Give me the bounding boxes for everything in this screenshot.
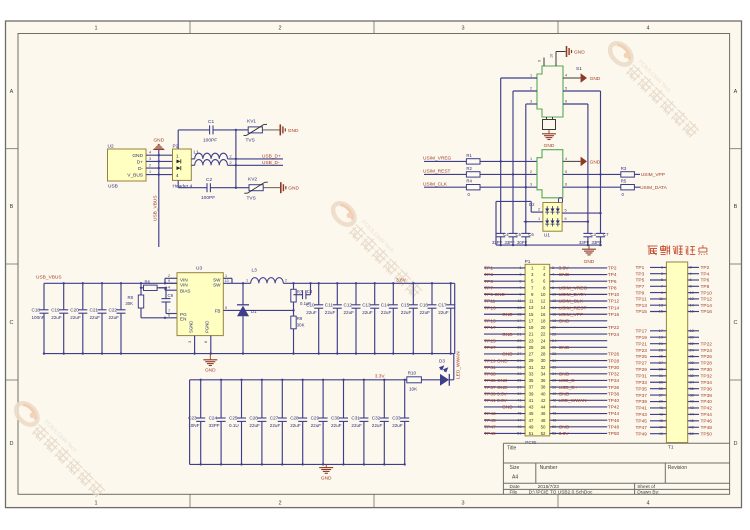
T1 pin row 25/26 bbox=[636, 354, 713, 361]
svg-text:3.8V: 3.8V bbox=[396, 277, 407, 283]
svg-text:20: 20 bbox=[541, 325, 546, 330]
svg-text:C10: C10 bbox=[306, 302, 315, 307]
svg-text:TP35 GND: TP35 GND bbox=[484, 378, 508, 384]
U3 bottom stubs bbox=[188, 336, 212, 355]
svg-text:47: 47 bbox=[529, 418, 534, 423]
svg-text:27: 27 bbox=[529, 352, 534, 357]
svg-text:A: A bbox=[10, 89, 14, 95]
resistor R3 bbox=[621, 166, 640, 177]
svg-text:A: A bbox=[734, 89, 738, 95]
P1 pin row 17/18 bbox=[484, 318, 607, 325]
P1 pin row 33/34 bbox=[484, 371, 619, 378]
svg-text:42: 42 bbox=[552, 398, 556, 403]
junctions C26 bbox=[261, 379, 263, 466]
svg-text:USB_D+: USB_D+ bbox=[262, 154, 281, 160]
svg-text:32: 32 bbox=[552, 364, 556, 369]
svg-text:10: 10 bbox=[541, 292, 546, 297]
svg-text:33: 33 bbox=[517, 371, 521, 376]
header P2 bbox=[173, 144, 193, 190]
svg-text:GND: GND bbox=[559, 319, 570, 325]
svg-text:GND: GND bbox=[321, 475, 332, 481]
svg-text:TP29 GND: TP29 GND bbox=[484, 358, 508, 364]
svg-text:C16: C16 bbox=[420, 302, 429, 307]
svg-text:TP15: TP15 bbox=[484, 319, 496, 325]
svg-text:36: 36 bbox=[552, 378, 556, 383]
capacitor C8 bbox=[294, 282, 313, 306]
svg-text:TP50: TP50 bbox=[701, 431, 713, 437]
svg-text:TP11: TP11 bbox=[484, 299, 495, 305]
svg-text:D:\ \PCIE TO USB2.0.: D:\ \PCIE TO USB2.0.SchDoc bbox=[529, 490, 593, 496]
svg-text:LED_WWAN: LED_WWAN bbox=[559, 398, 588, 404]
junctions C33 bbox=[404, 379, 406, 466]
wire X1 pin6 row bbox=[563, 186, 621, 188]
svg-text:TP25: TP25 bbox=[484, 338, 496, 344]
P1 pin row 49/50 bbox=[484, 424, 619, 431]
svg-text:12: 12 bbox=[690, 296, 694, 301]
svg-text:22uF: 22uF bbox=[438, 310, 449, 315]
svg-text:3: 3 bbox=[188, 341, 192, 343]
svg-text:TP46: TP46 bbox=[608, 418, 620, 424]
svg-text:30K: 30K bbox=[125, 301, 133, 306]
svg-text:USB_VBUS: USB_VBUS bbox=[153, 195, 159, 221]
wire 3.3V rail bbox=[190, 379, 407, 381]
svg-text:USIM_DATA: USIM_DATA bbox=[640, 185, 668, 191]
T1 pin row 17/18 bbox=[636, 328, 700, 335]
svg-text:3: 3 bbox=[530, 183, 532, 187]
capacitor C33 bbox=[392, 380, 409, 465]
svg-text:6: 6 bbox=[552, 278, 554, 283]
svg-text:TVS: TVS bbox=[246, 138, 255, 144]
svg-text:6: 6 bbox=[565, 217, 567, 221]
svg-text:TP12: TP12 bbox=[608, 299, 620, 305]
capacitor C14 bbox=[381, 283, 398, 353]
capacitor C26 bbox=[249, 380, 266, 465]
svg-text:6: 6 bbox=[168, 313, 170, 317]
ground symbol above U2 bbox=[153, 138, 165, 151]
junctions C23 bbox=[200, 379, 202, 466]
svg-text:29: 29 bbox=[517, 358, 521, 363]
wire U1 top link bbox=[496, 201, 531, 245]
svg-text:49: 49 bbox=[659, 431, 663, 436]
svg-text:TP36: TP36 bbox=[701, 386, 713, 392]
P1 pin row 35/36 bbox=[484, 378, 619, 385]
wire X1 pin4 bbox=[563, 160, 581, 162]
svg-text:TP13: TP13 bbox=[636, 303, 648, 309]
svg-text:22uF: 22uF bbox=[311, 423, 322, 428]
wire S1 pin3 bbox=[526, 100, 537, 105]
svg-text:USB_D+: USB_D+ bbox=[559, 385, 578, 391]
svg-text:TP39 3.3V: TP39 3.3V bbox=[484, 391, 507, 397]
junction rail C21 bbox=[101, 282, 103, 284]
junction gnd C19 bbox=[63, 352, 65, 354]
svg-text:TP25: TP25 bbox=[636, 354, 648, 360]
svg-text:48: 48 bbox=[541, 418, 546, 423]
svg-text:9: 9 bbox=[519, 292, 521, 297]
svg-text:22uF: 22uF bbox=[51, 315, 62, 320]
svg-text:C1: C1 bbox=[208, 119, 214, 125]
ground X1 pin4 bbox=[581, 157, 601, 167]
junction rail C22 bbox=[120, 282, 122, 284]
values C4 C5 C6 bbox=[492, 240, 528, 245]
svg-text:D1: D1 bbox=[251, 309, 257, 314]
svg-text:4: 4 bbox=[646, 501, 649, 507]
svg-text:30PF: 30PF bbox=[517, 240, 528, 245]
common-mode choke L1 bbox=[191, 150, 231, 166]
svg-text:TP46: TP46 bbox=[701, 419, 713, 425]
title block frame bbox=[503, 443, 729, 494]
svg-text:TP24: TP24 bbox=[701, 348, 713, 354]
capacitor C27 bbox=[270, 380, 287, 465]
svg-text:33PF: 33PF bbox=[492, 240, 503, 245]
svg-text:TP37 GND: TP37 GND bbox=[484, 385, 508, 391]
svg-text:23: 23 bbox=[517, 338, 521, 343]
junction rail C20 bbox=[82, 282, 84, 284]
svg-text:46: 46 bbox=[552, 411, 556, 416]
svg-text:USIM_REST: USIM_REST bbox=[559, 305, 587, 311]
wire X1 pin5 row bbox=[563, 173, 621, 175]
resistor R1 bbox=[424, 153, 537, 164]
svg-text:17: 17 bbox=[517, 318, 521, 323]
svg-text:TP14: TP14 bbox=[701, 303, 713, 309]
capacitor C16 bbox=[420, 283, 437, 353]
svg-text:D-: D- bbox=[138, 166, 143, 172]
svg-text:2015/7/23: 2015/7/23 bbox=[538, 484, 560, 490]
svg-text:50: 50 bbox=[541, 424, 546, 429]
svg-text:22uF: 22uF bbox=[331, 423, 342, 428]
wire U1 pin1 bbox=[524, 217, 543, 223]
svg-text:2: 2 bbox=[149, 164, 151, 168]
ground KV2 bbox=[281, 182, 300, 193]
P1 pin row 43/44 bbox=[484, 404, 619, 411]
svg-text:TP23: TP23 bbox=[636, 348, 648, 354]
svg-text:21: 21 bbox=[517, 331, 521, 336]
svg-text:36: 36 bbox=[690, 386, 694, 391]
svg-text:R9: R9 bbox=[297, 316, 303, 321]
svg-text:TP19: TP19 bbox=[636, 335, 648, 341]
svg-text:USIM_DATA: USIM_DATA bbox=[559, 292, 587, 298]
svg-text:22uF: 22uF bbox=[344, 310, 355, 315]
svg-text:32: 32 bbox=[690, 373, 694, 378]
T1 pin row 1/2 bbox=[636, 265, 710, 272]
T1 pin row 43/44 bbox=[636, 412, 713, 419]
junctions C15 bbox=[412, 282, 414, 355]
connector T1 bbox=[666, 262, 687, 451]
svg-text:43: 43 bbox=[529, 405, 534, 410]
svg-text:22uF: 22uF bbox=[270, 423, 281, 428]
wire R6 to VIN bbox=[159, 287, 165, 289]
svg-text:C14: C14 bbox=[381, 302, 390, 307]
svg-text:C22: C22 bbox=[109, 307, 118, 312]
svg-text:6: 6 bbox=[565, 183, 567, 187]
P1 pin row 5/6 bbox=[484, 278, 617, 285]
svg-text:C: C bbox=[734, 320, 738, 326]
svg-text:1: 1 bbox=[176, 154, 179, 159]
svg-text:USIM_VPP: USIM_VPP bbox=[641, 172, 665, 178]
svg-text:C31: C31 bbox=[351, 416, 360, 421]
svg-text:3: 3 bbox=[461, 501, 464, 507]
svg-text:GND: GND bbox=[132, 153, 143, 159]
svg-text:TP4: TP4 bbox=[701, 271, 710, 277]
T1 pin row 33/34 bbox=[636, 379, 713, 386]
svg-text:21: 21 bbox=[659, 341, 663, 346]
svg-text:31: 31 bbox=[659, 373, 663, 378]
wire P2 top to C1 row bbox=[177, 130, 179, 149]
resistor R10 bbox=[407, 371, 440, 392]
svg-text:USIM_CLK: USIM_CLK bbox=[423, 181, 448, 187]
svg-text:TP40: TP40 bbox=[608, 398, 620, 404]
svg-text:TP22: TP22 bbox=[608, 325, 620, 331]
svg-text:C4: C4 bbox=[503, 232, 509, 237]
P1 pin row 7/8 bbox=[484, 285, 617, 292]
wire drop to led row bbox=[453, 354, 455, 380]
junctions C31 bbox=[363, 379, 365, 466]
svg-text:4: 4 bbox=[176, 173, 179, 178]
svg-text:GND: GND bbox=[288, 186, 299, 192]
svg-text:24: 24 bbox=[541, 338, 546, 343]
svg-text:11: 11 bbox=[517, 298, 521, 303]
svg-text:2: 2 bbox=[278, 501, 281, 507]
svg-text:TP27: TP27 bbox=[636, 361, 648, 367]
svg-text:2: 2 bbox=[168, 274, 170, 278]
svg-text:16: 16 bbox=[690, 309, 694, 314]
svg-text:1: 1 bbox=[94, 26, 97, 32]
capacitor C4 bbox=[496, 232, 509, 246]
svg-text:TP9 GND: TP9 GND bbox=[484, 292, 505, 298]
svg-text:19: 19 bbox=[659, 334, 663, 339]
svg-text:USB: USB bbox=[108, 184, 118, 190]
svg-text:26: 26 bbox=[552, 345, 556, 350]
svg-text:39: 39 bbox=[659, 399, 663, 404]
svg-text:5: 5 bbox=[565, 87, 567, 91]
svg-text:23: 23 bbox=[529, 338, 534, 343]
junctions C14 bbox=[392, 282, 394, 355]
wire S1 pin6 bbox=[563, 100, 588, 105]
svg-text:TP9: TP9 bbox=[636, 290, 645, 296]
svg-text:C6: C6 bbox=[528, 232, 534, 237]
svg-text:TP48: TP48 bbox=[608, 424, 620, 430]
svg-text:C28: C28 bbox=[290, 416, 299, 421]
P1 pin row 15/16 bbox=[484, 311, 619, 318]
svg-text:C5: C5 bbox=[516, 232, 522, 237]
U1 internal diodes bbox=[545, 206, 560, 226]
sim holder X1 lower bbox=[537, 150, 563, 198]
capacitor C7 bbox=[596, 213, 609, 246]
P1 pin row 47/48 bbox=[484, 417, 619, 424]
wire ground rail bbox=[44, 353, 455, 355]
svg-text:39: 39 bbox=[529, 391, 534, 396]
svg-text:33PF: 33PF bbox=[592, 240, 603, 245]
capacitor C22 bbox=[109, 283, 126, 353]
capacitor C23 bbox=[188, 380, 205, 465]
svg-text:22uF: 22uF bbox=[306, 310, 317, 315]
svg-text:U3: U3 bbox=[196, 266, 202, 272]
svg-text:TP3: TP3 bbox=[484, 272, 493, 278]
svg-text:GND: GND bbox=[205, 368, 216, 374]
T1 pin row 29/30 bbox=[636, 367, 713, 374]
svg-text:GND: GND bbox=[584, 259, 595, 265]
svg-text:52: 52 bbox=[541, 431, 546, 436]
T1 pin row 35/36 bbox=[636, 386, 713, 393]
capacitor C13 bbox=[362, 283, 379, 353]
wire output rail bbox=[283, 282, 454, 284]
svg-text:B: B bbox=[734, 204, 738, 210]
capacitor C17 bbox=[438, 283, 455, 353]
svg-text:TP7: TP7 bbox=[484, 285, 493, 291]
junctions C17 bbox=[450, 282, 452, 355]
T1 pin row 49/50 bbox=[636, 431, 713, 438]
svg-text:9: 9 bbox=[538, 60, 542, 62]
T1 pin row 41/42 bbox=[636, 405, 713, 412]
svg-text:Drawn By:: Drawn By: bbox=[637, 490, 659, 496]
svg-text:10: 10 bbox=[550, 54, 554, 58]
svg-text:22uF: 22uF bbox=[70, 315, 81, 320]
svg-text:USB_VBUS: USB_VBUS bbox=[36, 275, 62, 281]
svg-text:TP32: TP32 bbox=[701, 374, 713, 380]
svg-text:31: 31 bbox=[529, 365, 534, 370]
ground KV1 bbox=[280, 124, 299, 135]
capacitor C3 bbox=[583, 232, 596, 246]
esd array U1 bbox=[529, 202, 562, 238]
svg-text:VIN: VIN bbox=[180, 282, 188, 287]
svg-text:TP33: TP33 bbox=[636, 380, 648, 386]
svg-text:S1: S1 bbox=[576, 66, 582, 72]
wire U1 pin2 bbox=[531, 201, 543, 212]
svg-text:A4: A4 bbox=[512, 475, 518, 481]
capacitor C5 bbox=[509, 232, 522, 246]
svg-text:C21: C21 bbox=[90, 307, 99, 312]
svg-text:U1: U1 bbox=[544, 232, 550, 238]
svg-text:22: 22 bbox=[552, 331, 556, 336]
P1 pin row 1/2 bbox=[484, 265, 617, 272]
svg-text:2: 2 bbox=[552, 265, 554, 270]
svg-text:TP42: TP42 bbox=[701, 406, 713, 412]
svg-text:48: 48 bbox=[690, 424, 694, 429]
svg-text:36: 36 bbox=[541, 378, 546, 383]
svg-text:16: 16 bbox=[552, 311, 556, 316]
svg-text:22uF: 22uF bbox=[109, 315, 120, 320]
resistor R5 bbox=[621, 179, 640, 197]
capacitor C24 bbox=[209, 380, 226, 465]
svg-text:7: 7 bbox=[661, 284, 663, 289]
svg-text:35: 35 bbox=[529, 378, 534, 383]
svg-text:TP43: TP43 bbox=[484, 411, 496, 417]
svg-text:41: 41 bbox=[659, 405, 663, 410]
svg-text:38: 38 bbox=[541, 385, 546, 390]
wire caps gnd rail bbox=[496, 244, 602, 246]
svg-text:TP47: TP47 bbox=[484, 424, 496, 430]
resistor R9 bbox=[291, 316, 305, 355]
svg-text:C12: C12 bbox=[344, 302, 353, 307]
svg-text:5: 5 bbox=[225, 306, 227, 310]
svg-text:18: 18 bbox=[690, 328, 694, 333]
svg-text:GND: GND bbox=[559, 272, 570, 278]
svg-text:5: 5 bbox=[519, 278, 521, 283]
svg-text:16: 16 bbox=[541, 312, 546, 317]
svg-text:25: 25 bbox=[659, 354, 663, 359]
wire P2 bottom to C2 row bbox=[177, 180, 179, 187]
wire vertical junction column bbox=[235, 130, 237, 188]
capacitor C2 bbox=[178, 177, 236, 201]
svg-text:2: 2 bbox=[285, 278, 287, 282]
junction gnd C18 bbox=[43, 352, 45, 354]
svg-text:D: D bbox=[10, 441, 14, 447]
capacitor C10 bbox=[306, 283, 323, 353]
junction C2 row bbox=[235, 187, 237, 189]
svg-text:B: B bbox=[10, 204, 14, 210]
svg-text:3: 3 bbox=[149, 157, 151, 161]
svg-text:5: 5 bbox=[565, 209, 567, 213]
P1 pin row 23/24 bbox=[484, 338, 607, 345]
watermark bottom-left bbox=[11, 398, 112, 499]
capacitor C21 bbox=[90, 283, 107, 353]
svg-text:1: 1 bbox=[519, 265, 521, 270]
P1 pin row 41/42 bbox=[484, 398, 619, 405]
wire S1 pin1 bbox=[501, 74, 537, 79]
svg-text:R4: R4 bbox=[466, 179, 472, 184]
svg-text:2: 2 bbox=[538, 208, 540, 212]
svg-text:100PF: 100PF bbox=[201, 195, 215, 201]
svg-text:TP31: TP31 bbox=[484, 365, 496, 371]
svg-text:49: 49 bbox=[517, 424, 521, 429]
svg-text:R3: R3 bbox=[621, 166, 627, 171]
svg-text:SW: SW bbox=[213, 282, 221, 287]
svg-text:TP41 3.3V: TP41 3.3V bbox=[484, 398, 507, 404]
svg-text:TP26: TP26 bbox=[608, 352, 620, 358]
svg-text:TP13: TP13 bbox=[484, 305, 496, 311]
svg-text:5: 5 bbox=[661, 277, 663, 282]
svg-text:R8: R8 bbox=[128, 295, 134, 300]
junctions C32 bbox=[383, 379, 385, 466]
T1 pin row 11/12 bbox=[636, 296, 713, 303]
svg-text:1: 1 bbox=[530, 74, 532, 78]
svg-text:Title: Title bbox=[507, 446, 516, 452]
capacitor C31 bbox=[351, 380, 368, 465]
svg-text:22uF: 22uF bbox=[372, 423, 383, 428]
U1 top hook bbox=[559, 198, 563, 203]
junctions C24 bbox=[220, 379, 222, 466]
svg-text:C26: C26 bbox=[249, 416, 258, 421]
svg-text:22uF: 22uF bbox=[392, 423, 403, 428]
svg-text:29: 29 bbox=[529, 358, 534, 363]
title block text bbox=[507, 446, 687, 496]
junctions C25 bbox=[240, 379, 242, 466]
T1 pin row 31/32 bbox=[636, 373, 713, 380]
junction rail C19 bbox=[63, 282, 65, 284]
svg-text:EN: EN bbox=[180, 317, 186, 322]
resistor R7 bbox=[291, 282, 303, 316]
svg-text:TP47: TP47 bbox=[636, 425, 648, 431]
svg-text:4: 4 bbox=[565, 157, 567, 161]
svg-text:4: 4 bbox=[149, 151, 151, 155]
svg-text:2: 2 bbox=[278, 26, 281, 32]
svg-text:TP17: TP17 bbox=[636, 329, 648, 335]
svg-text:34: 34 bbox=[541, 371, 546, 376]
svg-text:C2: C2 bbox=[206, 177, 212, 183]
svg-text:Revision: Revision bbox=[668, 465, 687, 471]
svg-text:1: 1 bbox=[530, 157, 532, 161]
wire bus right pin6 bbox=[587, 104, 589, 233]
svg-text:C13: C13 bbox=[362, 302, 371, 307]
svg-text:GND: GND bbox=[544, 143, 555, 149]
values C3 C7 bbox=[579, 240, 602, 245]
T1 pin row 47/48 bbox=[636, 424, 713, 431]
svg-text:TP3: TP3 bbox=[636, 271, 645, 277]
svg-text:19: 19 bbox=[517, 325, 521, 330]
svg-text:TP2: TP2 bbox=[608, 266, 617, 272]
svg-text:18: 18 bbox=[541, 318, 546, 323]
svg-text:2: 2 bbox=[530, 170, 532, 174]
P1 pin row 3/4 bbox=[484, 272, 617, 279]
